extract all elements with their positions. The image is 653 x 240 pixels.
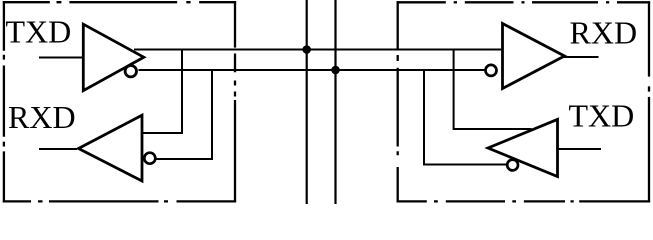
wire: U2 output to RXD xyxy=(39,148,77,150)
node: junction dot bus2/lower wire xyxy=(331,66,340,75)
driver U1 (left TXD buffer) xyxy=(83,24,144,90)
bubble: U4 inverting output xyxy=(507,160,518,171)
bubble: U1 inverting output xyxy=(125,66,136,77)
wire: U4 inverting output stub to lower wire xyxy=(424,70,507,165)
wire: lower pair line between stations xyxy=(139,69,486,71)
wire: TXD input to U4 xyxy=(558,148,601,150)
bubble: U3 inverting input xyxy=(486,65,497,76)
receiver U3 (right RXD buffer) xyxy=(503,24,565,89)
svg-text:RXD: RXD xyxy=(8,99,76,135)
left station enclosure (dash-dot box) xyxy=(3,1,236,202)
right station enclosure (dash-dot box) xyxy=(397,1,650,202)
wire: U2 non-inverting input stub to upper wire xyxy=(142,50,182,134)
wire: U3 output to RXD xyxy=(563,56,599,58)
bubble: U2 inverting input xyxy=(144,153,155,164)
wire: U4 output stub to upper wire xyxy=(454,50,532,130)
node: junction dot bus1/upper wire xyxy=(302,45,311,54)
wire: upper pair line between stations xyxy=(134,49,502,51)
bus line 2 (vertical party line) xyxy=(334,0,336,204)
svg-text:RXD: RXD xyxy=(570,14,638,50)
receiver U2 (left RXD buffer) xyxy=(79,115,143,181)
driver U4 (right TXD buffer) xyxy=(488,119,558,176)
bus line 1 (vertical party line) xyxy=(306,0,308,204)
wire: TXD input to U1 xyxy=(39,57,83,59)
wire: U2 inverting input stub to lower wire xyxy=(157,70,213,159)
svg-text:TXD: TXD xyxy=(6,13,72,49)
svg-text:TXD: TXD xyxy=(569,97,635,133)
